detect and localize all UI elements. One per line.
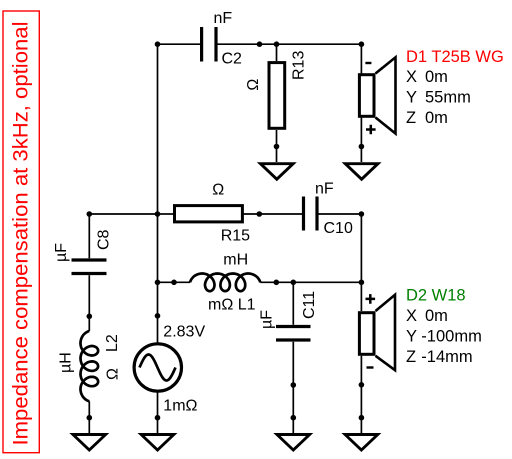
svg-text:1mΩ: 1mΩ xyxy=(163,398,197,415)
svg-text:X: X xyxy=(406,307,417,325)
D1 plus xyxy=(366,125,376,135)
node D1 top xyxy=(359,41,365,47)
node R13 top xyxy=(274,41,280,47)
node L1 left tap xyxy=(155,280,161,286)
capacitor C2 xyxy=(202,27,216,62)
node D2 bottom xyxy=(359,415,365,421)
wire C11 bottom to ground xyxy=(292,342,294,433)
ground xyxy=(345,164,378,180)
node source bottom xyxy=(155,415,161,421)
resistor R15 xyxy=(175,206,243,222)
wire R15 left xyxy=(158,213,174,215)
svg-text:µH: µH xyxy=(58,352,75,373)
capacitor C10 xyxy=(304,197,318,231)
speaker D2 xyxy=(359,295,395,370)
node R15-C10 junction xyxy=(257,211,263,217)
node C2-R13 junction a xyxy=(257,41,263,47)
node D2 top xyxy=(359,280,365,286)
svg-text:µF: µF xyxy=(259,310,276,329)
wire C10 down to D2 node xyxy=(360,214,362,311)
node C8 top xyxy=(87,211,93,217)
wire main left vertical xyxy=(157,44,159,344)
wire D2 bottom to ground xyxy=(360,356,362,433)
inductor L2 xyxy=(81,331,99,401)
svg-text:Z: Z xyxy=(406,348,416,366)
wire D1 bottom to ground xyxy=(360,118,362,163)
red annotation box xyxy=(3,11,39,453)
svg-text:Y: Y xyxy=(406,328,417,346)
svg-text:L2: L2 xyxy=(104,334,121,352)
node C8-L2 junction xyxy=(87,314,93,320)
D1 minus xyxy=(365,62,371,64)
svg-text:C8: C8 xyxy=(96,229,113,250)
D2 plus xyxy=(366,294,376,304)
wire R13 bottom to ground xyxy=(276,130,278,162)
voltage source V1 xyxy=(134,344,181,391)
node R13 bottom xyxy=(274,144,280,150)
wire top left horizontal xyxy=(158,43,201,45)
wire C8 bottom to L2 xyxy=(88,275,90,331)
node D2 mid xyxy=(359,382,365,388)
ground xyxy=(277,435,310,451)
svg-text:X: X xyxy=(406,68,417,86)
node C11 top xyxy=(291,280,297,286)
wire C8 top vertical xyxy=(88,214,90,258)
svg-text:0m: 0m xyxy=(425,307,448,325)
svg-text:C2: C2 xyxy=(222,51,243,68)
svg-text:mΩ L1: mΩ L1 xyxy=(208,296,256,313)
svg-text:55mm: 55mm xyxy=(425,89,471,107)
svg-text:2.83V: 2.83V xyxy=(163,323,205,340)
svg-text:Y: Y xyxy=(406,89,417,107)
wire L2 to ground xyxy=(88,401,90,433)
wire C11 top xyxy=(292,282,294,325)
ground xyxy=(73,435,106,451)
svg-text:0m: 0m xyxy=(425,109,448,127)
wire top right horizontal xyxy=(218,43,362,45)
svg-text:-100mm: -100mm xyxy=(421,328,482,346)
wire L1 row left xyxy=(158,281,191,283)
D2 minus xyxy=(367,366,374,368)
svg-text:R15: R15 xyxy=(221,227,250,244)
wire C8 branch horizontal xyxy=(89,213,157,215)
ground xyxy=(141,435,174,451)
node C10 right xyxy=(359,211,365,217)
wire R15 to C10 xyxy=(243,213,302,215)
ground xyxy=(345,435,378,451)
speaker D1 xyxy=(359,57,395,133)
resistor R13 xyxy=(269,63,285,129)
svg-text:R13: R13 xyxy=(291,51,308,80)
node D1 bottom xyxy=(359,144,365,150)
svg-text:-14mm: -14mm xyxy=(421,348,472,366)
node C11 bottom xyxy=(291,415,297,421)
svg-text:Ω: Ω xyxy=(212,182,224,199)
node A top-left xyxy=(155,41,161,47)
svg-text:µF: µF xyxy=(53,243,70,262)
node C11 mid xyxy=(291,382,297,388)
wire source bottom xyxy=(157,392,159,434)
node A mid (R15 tap) xyxy=(155,211,161,217)
ground xyxy=(260,164,293,180)
svg-text:D1 T25B WG: D1 T25B WG xyxy=(406,48,504,66)
svg-text:Z: Z xyxy=(406,109,416,127)
wire R13 top xyxy=(276,44,278,61)
wire D1 top xyxy=(360,44,362,73)
svg-text:Impedance compensation at 3kHz: Impedance compensation at 3kHz, optional xyxy=(10,22,33,446)
node source top xyxy=(155,313,161,319)
capacitor C8 xyxy=(72,260,107,274)
svg-text:C11: C11 xyxy=(301,291,318,319)
svg-text:nF: nF xyxy=(315,180,334,197)
node L2 bottom xyxy=(87,415,93,421)
svg-text:C10: C10 xyxy=(324,220,353,237)
capacitor C11 xyxy=(276,327,311,341)
wire C10 right xyxy=(319,213,362,215)
svg-text:Ω: Ω xyxy=(104,368,121,380)
node L1 left pin xyxy=(171,280,177,286)
svg-text:Ω: Ω xyxy=(245,79,262,91)
svg-text:0m: 0m xyxy=(425,68,448,86)
svg-text:D2 W18: D2 W18 xyxy=(406,287,466,305)
wire L1 row right xyxy=(260,281,361,283)
node L1 right pin xyxy=(274,280,280,286)
svg-text:mH: mH xyxy=(223,252,248,269)
inductor L1 xyxy=(190,274,260,292)
svg-text:nF: nF xyxy=(214,10,233,27)
